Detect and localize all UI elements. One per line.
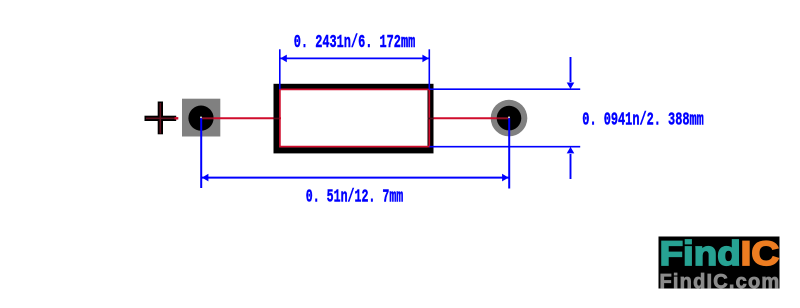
pad 2 center mark xyxy=(508,117,510,119)
wire under silk left xyxy=(273,118,279,120)
dimension right arrow up xyxy=(567,147,575,154)
pad 1 square xyxy=(182,99,220,137)
svg-text:0. 51n/12. 7mm: 0. 51n/12. 7mm xyxy=(306,188,404,208)
wire ratline stub xyxy=(175,117,179,119)
pad 2 hole xyxy=(497,106,522,131)
resistor body courtyard red xyxy=(280,89,429,146)
wire under silk right xyxy=(428,118,434,120)
dimension bottom line xyxy=(202,177,510,179)
svg-text:FindIC.com: FindIC.com xyxy=(660,271,781,293)
dimension right extension top xyxy=(429,88,580,90)
dimension bottom arrow left xyxy=(202,174,209,182)
dimension bottom arrow right xyxy=(502,174,509,182)
pad 1 hole xyxy=(188,106,213,131)
dimension right arrow down xyxy=(567,83,575,90)
svg-text:0. 0941n/2. 388mm: 0. 0941n/2. 388mm xyxy=(582,110,704,130)
wire right lead over hole xyxy=(497,117,509,119)
svg-text:0. 2431n/6. 172mm: 0. 2431n/6. 172mm xyxy=(294,33,416,53)
resistor body outline black xyxy=(277,87,431,151)
dimension bottom extension right xyxy=(508,118,510,188)
pad 2 round xyxy=(491,100,528,137)
pad 1 center mark xyxy=(200,117,202,119)
dimension right line lower tail xyxy=(570,154,572,179)
FindIC logo box xyxy=(659,237,780,289)
dimension right line upper tail xyxy=(570,57,572,82)
dimension bottom extension left xyxy=(200,118,202,188)
wire left lead xyxy=(214,117,281,119)
dimension top arrow left xyxy=(280,55,287,63)
dimension top extension left xyxy=(279,49,281,89)
dimension right extension bottom xyxy=(430,146,581,148)
dimension top extension right xyxy=(428,49,430,89)
wire left lead over hole xyxy=(201,117,214,119)
wire right lead xyxy=(434,117,497,119)
dimension top line xyxy=(281,57,430,59)
svg-text:FindIC: FindIC xyxy=(660,235,779,273)
origin marker plus xyxy=(145,102,177,135)
dimension top arrow right xyxy=(422,55,429,63)
